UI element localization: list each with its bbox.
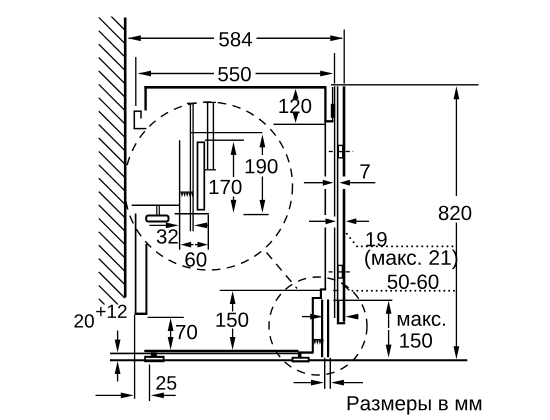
dimension 20+12 arrows bbox=[115, 340, 121, 353]
machine back lower bbox=[145, 244, 147, 313]
dimension 190 bbox=[260, 134, 266, 147]
label 820 bbox=[439, 206, 472, 221]
label 150 left bbox=[216, 313, 248, 328]
label 70 bbox=[176, 325, 197, 340]
front step bbox=[324, 120, 333, 122]
label 50-60 bbox=[388, 275, 439, 290]
plinth thickness arrows below floor bbox=[311, 380, 324, 386]
label 190 bbox=[246, 159, 278, 174]
extension line rear (25) bbox=[134, 315, 136, 399]
plinth thickness extension lines below floor bbox=[324, 358, 326, 389]
wall line bbox=[124, 18, 127, 298]
machine bottom bbox=[144, 350, 298, 352]
dotted leader 19 bbox=[346, 233, 348, 235]
inlet hose (right pair) bbox=[207, 103, 209, 170]
rear panel line A bbox=[179, 140, 181, 249]
label 170 bbox=[210, 180, 242, 195]
big detail circle (dashed) bbox=[125, 102, 293, 270]
dimension 25 bbox=[121, 393, 134, 399]
lower hinge bbox=[338, 265, 342, 278]
standpipe reference line (170) bbox=[205, 139, 244, 141]
dashed connector between detail circles bbox=[267, 253, 298, 289]
upper hinge bbox=[338, 145, 343, 157]
dimension 32 bbox=[166, 223, 179, 229]
label 32 bbox=[157, 229, 178, 244]
worktop trim right wall bbox=[332, 87, 334, 122]
magnified machine front outline bbox=[313, 289, 326, 352]
furniture door front line (gapped at 7 arrow) bbox=[343, 86, 346, 176]
bottom detail circle (dashed) bbox=[269, 277, 367, 375]
furniture door middle line bbox=[337, 86, 339, 322]
reference segment under 190 bbox=[244, 214, 269, 216]
dimension 584 line bbox=[129, 37, 215, 39]
machine front top thick bbox=[324, 86, 326, 121]
extension line door front (584) bbox=[343, 30, 345, 84]
label 550 bbox=[218, 67, 251, 82]
reference line maks150 bbox=[333, 299, 392, 301]
furniture door back line (gapped at arrows) bbox=[334, 86, 336, 216]
extension line foot (25) bbox=[149, 365, 151, 402]
hose reference line (190) bbox=[191, 132, 262, 134]
label 19 bbox=[366, 232, 386, 247]
floor lower line bbox=[110, 359, 467, 361]
extension line rear (550) bbox=[135, 57, 137, 106]
magnified base shelf line bbox=[132, 204, 180, 206]
dimension 7 bbox=[323, 180, 334, 186]
label 7 bbox=[360, 164, 369, 178]
reference line 150 bbox=[220, 289, 321, 291]
reference line 120 bbox=[274, 123, 325, 125]
dimension 150 bbox=[230, 291, 236, 304]
dimension 60 bbox=[181, 242, 192, 248]
label 584 bbox=[219, 32, 252, 47]
rear channel bottom bbox=[135, 313, 148, 315]
rear hose box bbox=[134, 110, 142, 112]
base line in circle bbox=[175, 213, 209, 215]
dimension 170 bbox=[231, 142, 237, 155]
plinth recess arrows bbox=[310, 314, 323, 320]
dimension maks 150 bbox=[386, 301, 392, 314]
magnified plinth panel bbox=[321, 300, 323, 358]
floor upper line bbox=[110, 352, 298, 354]
label 150 right bbox=[400, 333, 432, 348]
extension line door back (550) bbox=[334, 53, 336, 84]
rear channel left bbox=[135, 214, 137, 315]
black hinge mark top bbox=[331, 104, 335, 118]
serrated clamp (zigzag) bbox=[181, 193, 194, 198]
dotted leader 50-60 bbox=[341, 283, 349, 291]
extension line B bbox=[207, 215, 209, 250]
label (макс. 21) bbox=[365, 250, 457, 270]
machine front line (gapped at dimension arrows) bbox=[324, 122, 326, 176]
reference line 70 bbox=[148, 316, 184, 318]
label 60 bbox=[185, 252, 206, 266]
plinth top segment bbox=[333, 290, 338, 292]
magnified base bottom bbox=[298, 351, 314, 353]
label 120 bbox=[279, 99, 311, 114]
machine back upper bbox=[144, 86, 146, 111]
dimension 70 bbox=[168, 318, 174, 331]
magnified door bottom U bbox=[337, 300, 339, 322]
drain hose (left pair) bbox=[189, 104, 191, 231]
caption bbox=[348, 396, 482, 414]
magnified front foot bbox=[298, 353, 302, 357]
standpipe rectangle bbox=[198, 142, 205, 209]
top reference line bbox=[331, 84, 479, 86]
left foot at floor bbox=[151, 352, 157, 356]
dimension 550 line bbox=[139, 73, 214, 75]
dimension 820 bbox=[454, 86, 460, 99]
machine top bbox=[144, 86, 325, 89]
dimension 120 bbox=[293, 89, 299, 99]
magnified adjustable foot bbox=[156, 206, 158, 216]
plinth zigzag clamp bbox=[314, 340, 324, 345]
label maks bbox=[398, 315, 445, 326]
label 25 bbox=[156, 376, 176, 390]
label 20+12 bbox=[75, 314, 94, 328]
dimension 19 bbox=[326, 218, 337, 224]
